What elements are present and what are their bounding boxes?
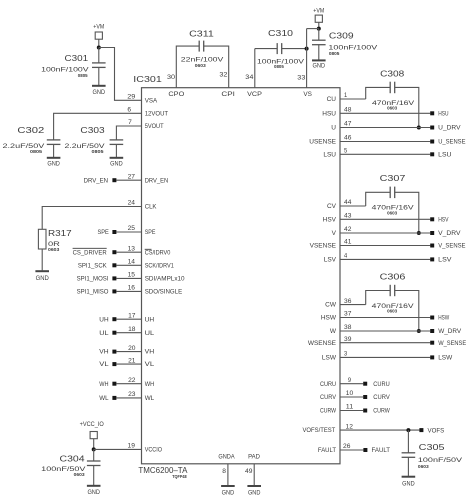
pin number 48 (344, 108, 352, 114)
wire pin 7 5VOUT to C303 (116, 126, 141, 140)
wire C301 to GND (98, 67, 100, 85)
net label CURW (373, 408, 390, 415)
svg-text:SDO/SINGLE: SDO/SINGLE (145, 289, 183, 296)
svg-text:13: 13 (128, 246, 136, 252)
IC301 value TMC6200-TA (138, 465, 187, 475)
junction C307/V_DRV (417, 231, 421, 235)
pin number 27 (128, 174, 136, 180)
wire pin 8 GNDA to GND (227, 464, 229, 485)
C307 refdes (380, 173, 406, 183)
wire C305 top (407, 430, 409, 453)
capacitor C301 (92, 63, 106, 68)
svg-text:GND: GND (222, 491, 235, 497)
svg-text:VSENSE: VSENSE (310, 243, 337, 250)
svg-text:36: 36 (344, 299, 352, 305)
wire C309 to GND (318, 45, 320, 60)
svg-text:C303: C303 (80, 125, 105, 135)
svg-text:GND: GND (313, 64, 326, 70)
svg-text:23: 23 (128, 392, 136, 398)
pin name VL (145, 361, 155, 368)
net square W_SENSE (430, 341, 434, 345)
net square U_DRV (430, 126, 434, 130)
pin number 23 (128, 392, 136, 398)
net square HSU (430, 111, 434, 115)
ground GNDA (221, 486, 235, 497)
net label U_DRV (438, 125, 461, 132)
svg-text:SDI/AMPLx10: SDI/AMPLx10 (145, 276, 185, 283)
pin number 12 (346, 424, 354, 430)
svg-text:UH: UH (99, 316, 109, 323)
svg-text:GND: GND (36, 276, 50, 282)
svg-text:VH: VH (99, 349, 109, 356)
wire pin 12 VOFS/TEST (340, 429, 420, 431)
wire pin 5 LSU (340, 153, 430, 155)
wire pin 26 FAULT (340, 449, 364, 451)
svg-text:W: W (330, 328, 337, 335)
svg-text:34: 34 (245, 75, 254, 81)
svg-text:39: 39 (344, 337, 352, 343)
svg-text:12: 12 (346, 424, 354, 430)
pin name HSV (323, 216, 337, 223)
wire CS_DRIVER to pin 13 (116, 251, 141, 253)
svg-text:WL: WL (145, 395, 155, 402)
svg-text:DRV_EN: DRV_EN (84, 177, 109, 184)
svg-text:0603: 0603 (74, 472, 86, 477)
svg-text:WL: WL (99, 395, 109, 402)
svg-text:TQFP48: TQFP48 (172, 474, 187, 479)
capacitor C310 (277, 43, 282, 54)
IC301 package TQFP48 (172, 474, 187, 479)
net label SPI1_MOSI (77, 276, 109, 283)
pin number 20 (128, 346, 136, 352)
svg-text:CW: CW (325, 302, 337, 309)
pin name 5VOUT (145, 123, 164, 130)
svg-text:0603: 0603 (387, 105, 398, 110)
net label WL (99, 395, 109, 402)
power +VCC_IO label (80, 422, 105, 428)
C303 refdes (80, 125, 105, 135)
svg-text:15: 15 (128, 273, 136, 279)
wire +VM to C301 (98, 48, 100, 63)
net square VH (112, 350, 116, 354)
wire UH to pin 17 (116, 318, 141, 320)
wire pin 3 LSW (340, 356, 430, 358)
svg-text:SPI1_SCK: SPI1_SCK (78, 262, 107, 269)
wire pin 10 CURV (340, 396, 363, 398)
net square VL (112, 362, 116, 366)
wire C303 to GND (115, 144, 117, 157)
svg-text:CURV: CURV (320, 394, 337, 401)
svg-text:17: 17 (128, 313, 136, 319)
C307 value (372, 205, 415, 212)
svg-text:0805: 0805 (274, 64, 284, 69)
pin name CS/IDRV0 overline (145, 248, 152, 250)
C305 refdes (419, 442, 445, 452)
svg-text:HSW: HSW (321, 315, 337, 322)
pin number 14 (128, 260, 136, 266)
svg-text:33: 33 (297, 75, 306, 81)
svg-text:R317: R317 (48, 228, 72, 238)
net square LSV (430, 257, 434, 261)
svg-text:VCP: VCP (247, 91, 262, 98)
wire C302 to GND (53, 144, 55, 157)
net square W_DRV (430, 329, 434, 333)
capacitor C308 (390, 82, 395, 94)
wire C308 right riser (395, 87, 419, 127)
junction +VM/C309 (317, 27, 321, 31)
svg-text:V: V (332, 230, 337, 237)
wire pin 9 CURU (340, 383, 363, 385)
svg-text:22: 22 (128, 378, 136, 384)
pin number 9 (348, 378, 352, 384)
svg-text:LSU: LSU (323, 151, 336, 158)
pin number 49 (245, 469, 253, 475)
C306 package 0603 (387, 309, 398, 314)
net label W_DRV (438, 328, 462, 335)
net square WL (112, 396, 116, 400)
svg-text:CS/IDRV0: CS/IDRV0 (145, 249, 171, 256)
svg-text:VL: VL (145, 361, 155, 368)
pin number 26 (343, 444, 351, 450)
net square CURW (363, 409, 367, 413)
IC301 refdes (133, 74, 162, 84)
pin name SPE (145, 229, 156, 236)
net label HSU (438, 111, 449, 118)
svg-text:47: 47 (344, 122, 352, 128)
svg-text:LSU: LSU (438, 152, 452, 159)
svg-text:SPI1_MISO: SPI1_MISO (77, 289, 109, 296)
svg-text:11: 11 (346, 405, 354, 411)
svg-text:0805: 0805 (92, 149, 105, 154)
svg-text:C305: C305 (419, 442, 445, 452)
net label CURV (373, 394, 390, 401)
wire pin 43 HSV (340, 218, 430, 220)
svg-text:CLK: CLK (145, 204, 157, 211)
svg-text:CURW: CURW (373, 408, 390, 415)
net square UH (112, 317, 116, 321)
net square HSV (430, 217, 434, 221)
ground C303 (110, 158, 124, 168)
svg-text:DRV_EN: DRV_EN (145, 177, 169, 184)
svg-text:CURU: CURU (320, 381, 336, 388)
svg-text:VOFS: VOFS (428, 427, 445, 434)
capacitor C302 (47, 140, 61, 145)
svg-text:C308: C308 (380, 69, 405, 79)
pin name W (330, 328, 337, 335)
pin number 17 (128, 313, 136, 319)
pin name VCP (247, 91, 262, 98)
power +VM right label (313, 8, 324, 14)
wire pin 39 WSENSE (340, 342, 430, 344)
svg-text:PAD: PAD (248, 453, 260, 460)
junction C310/VS (305, 47, 309, 51)
pin name SDO/SINGLE (145, 289, 183, 296)
R317 package 0603 (48, 247, 60, 252)
svg-text:0603: 0603 (387, 210, 398, 215)
net label HSW (438, 315, 450, 322)
svg-text:25: 25 (128, 226, 136, 232)
pin name HSW (321, 315, 337, 322)
svg-text:U_SENSE: U_SENSE (438, 139, 466, 146)
svg-text:FAULT: FAULT (318, 447, 336, 454)
pin number 36 (344, 299, 352, 305)
svg-text:27: 27 (128, 174, 136, 180)
pin name CURU (320, 381, 336, 388)
C308 value (372, 100, 415, 107)
net square CURV (363, 395, 367, 399)
svg-text:HSU: HSU (438, 111, 449, 118)
ground C301 (92, 86, 106, 96)
svg-text:FAULT: FAULT (372, 447, 391, 454)
wire SPI1_MISO to pin 16 (116, 290, 141, 292)
C310 value (257, 59, 305, 66)
svg-text:0603: 0603 (48, 247, 60, 252)
capacitor C307 (390, 187, 395, 199)
pin name LSW (322, 355, 337, 362)
capacitor C311 (199, 41, 204, 52)
wire SPI1_SCK to pin 14 (116, 264, 141, 266)
svg-text:46: 46 (344, 136, 352, 142)
svg-text:CURW: CURW (320, 408, 337, 415)
wire C310 left (255, 48, 277, 50)
svg-text:USENSE: USENSE (309, 139, 336, 146)
svg-text:GND: GND (47, 162, 60, 168)
net label V_DRV (438, 230, 461, 237)
C307 package 0603 (387, 210, 398, 215)
pin number 33 (297, 75, 306, 81)
svg-text:LSW: LSW (438, 355, 453, 362)
net label W_SENSE (438, 340, 467, 347)
pin name 12VOUT (145, 110, 168, 117)
pin number 41 (344, 240, 352, 246)
svg-text:W_DRV: W_DRV (438, 328, 462, 335)
svg-text:10: 10 (346, 391, 354, 397)
net square WH (112, 382, 116, 386)
wire pin 49 PAD to GND (253, 464, 255, 485)
wire C308 left riser (366, 87, 391, 99)
pin number 22 (128, 378, 136, 384)
svg-text:HSV: HSV (323, 216, 337, 223)
pin name CW (325, 302, 337, 309)
net label WH (99, 381, 109, 388)
wire VH to pin 20 (116, 351, 141, 353)
C304 package 0603 (74, 472, 86, 477)
C303 package 0805 (92, 149, 105, 154)
ground R317 (35, 271, 49, 282)
net label LSU (438, 152, 452, 159)
wire SPE to pin 25 (116, 231, 141, 233)
svg-text:HSW: HSW (438, 315, 450, 322)
pin number 7 (128, 120, 132, 126)
svg-text:GNDA: GNDA (218, 453, 235, 460)
pin number 30 (167, 75, 176, 81)
wire pin 47 U (340, 127, 430, 129)
svg-text:5VOUT: 5VOUT (145, 123, 164, 130)
pin number 15 (128, 273, 136, 279)
pin name VSENSE (310, 243, 337, 250)
pin number 13 (128, 246, 136, 252)
svg-text:IC301: IC301 (133, 74, 162, 84)
net square CS_DRIVER (112, 250, 116, 254)
svg-text:C306: C306 (380, 271, 406, 281)
pin number 32 (219, 73, 228, 79)
pin name VOFS/TEST (303, 427, 336, 434)
C308 package 0603 (387, 105, 398, 110)
svg-text:GND: GND (93, 90, 106, 96)
wire C304 to GND (93, 466, 95, 486)
svg-text:37: 37 (344, 312, 352, 318)
wire VL to pin 21 (116, 363, 141, 365)
pin name VH (145, 349, 155, 356)
net label V_SENSE (438, 243, 466, 250)
svg-text:W_SENSE: W_SENSE (438, 340, 467, 347)
pin name PAD (248, 453, 260, 460)
pin number 39 (344, 337, 352, 343)
pin name WSENSE (308, 340, 337, 347)
wire +VM right stub (318, 22, 320, 28)
svg-text:20: 20 (128, 346, 136, 352)
C306 refdes (380, 271, 406, 281)
junction C308/U_DRV (417, 126, 421, 130)
svg-text:41: 41 (344, 240, 352, 246)
svg-text:HSU: HSU (322, 110, 336, 117)
pin name DRV_EN (145, 177, 169, 184)
svg-text:C307: C307 (380, 173, 406, 183)
svg-text:0603: 0603 (387, 309, 398, 314)
svg-text:CS_DRIVER: CS_DRIVER (73, 249, 107, 256)
svg-text:VL: VL (99, 361, 109, 368)
resistor R317 (38, 229, 46, 249)
C308 refdes (380, 69, 405, 79)
net square VOFS (419, 428, 423, 432)
pin name VS (303, 91, 312, 98)
svg-text:48: 48 (344, 108, 352, 114)
ground C309 (312, 60, 326, 69)
svg-text:C311: C311 (189, 29, 214, 39)
svg-text:GND: GND (87, 490, 100, 496)
net label SPI1_MISO (77, 289, 109, 296)
svg-text:U_DRV: U_DRV (438, 125, 461, 132)
junction C306/W_DRV (417, 329, 421, 333)
net square HSW (430, 316, 434, 320)
net square U_SENSE (430, 140, 434, 144)
svg-text:0805: 0805 (30, 149, 43, 154)
C304 value (41, 466, 86, 473)
net label LSW (438, 355, 453, 362)
svg-text:32: 32 (219, 73, 228, 79)
pin number 5 (344, 149, 348, 155)
net square SPI1_MOSI (112, 276, 116, 280)
pin number 18 (128, 327, 136, 333)
wire pin 6 12VOUT to C302 (54, 113, 142, 140)
svg-text:V_SENSE: V_SENSE (438, 243, 466, 250)
pin name LSV (324, 257, 337, 264)
pin name WL (145, 395, 155, 402)
power +VM left label (93, 25, 104, 31)
pin name HSU (322, 110, 336, 117)
pin number 19 (128, 444, 136, 450)
pin number 43 (344, 214, 352, 220)
pin number 16 (128, 286, 136, 292)
svg-text:U: U (331, 125, 336, 132)
net square SPI1_MISO (112, 289, 116, 293)
svg-text:C310: C310 (268, 28, 293, 38)
svg-text:CURV: CURV (373, 394, 390, 401)
wire C311 loop (176, 46, 228, 88)
svg-text:C309: C309 (329, 31, 354, 41)
svg-text:+VM: +VM (93, 25, 104, 31)
pin number 38 (344, 325, 352, 331)
wire C306 right riser (395, 291, 419, 332)
wire C310 right (282, 48, 307, 50)
svg-text:SPI1_MOSI: SPI1_MOSI (77, 276, 109, 283)
pin number 11 (346, 405, 354, 411)
pin name CS/IDRV0 (145, 249, 171, 256)
wire pin 41 VSENSE (340, 245, 430, 247)
pin name CLK (145, 204, 157, 211)
net label SPE (98, 229, 110, 236)
C311 refdes (189, 29, 214, 39)
wire WL to pin 23 (116, 397, 141, 399)
svg-text:CURU: CURU (373, 381, 390, 388)
C302 refdes (17, 125, 44, 135)
C301 value (41, 67, 89, 74)
C309 refdes (329, 31, 354, 41)
wire pin 37 HSW (340, 317, 430, 319)
pin name CV (327, 203, 337, 210)
junction VOFS/C305 (406, 428, 410, 432)
power +VCC_IO symbol (90, 432, 97, 439)
svg-text:49: 49 (245, 469, 253, 475)
wire pin 48 HSU (340, 112, 430, 114)
R317 refdes (48, 228, 72, 238)
svg-text:VCCIO: VCCIO (145, 446, 162, 453)
C302 package 0805 (30, 149, 43, 154)
pin number 4 (344, 254, 348, 260)
net square DRV_EN (112, 178, 116, 182)
capacitor C309 (312, 40, 326, 45)
svg-text:+VCC_IO: +VCC_IO (80, 422, 105, 428)
wire pin 1 CU (340, 98, 366, 100)
pin number 3 (344, 352, 348, 358)
wire C305 to GND (407, 457, 409, 476)
pin number 47 (344, 122, 352, 128)
net square SPE (112, 230, 116, 234)
pin name LSU (323, 151, 336, 158)
wire UL to pin 18 (116, 332, 141, 334)
svg-text:+VM: +VM (313, 8, 324, 14)
C310 package 0805 (274, 64, 284, 69)
pin number 29 (127, 95, 136, 101)
pin name CPO (168, 91, 184, 98)
net square V_DRV (430, 231, 434, 235)
C309 package 0805 (329, 51, 340, 56)
svg-text:C301: C301 (65, 53, 89, 63)
svg-text:CU: CU (327, 96, 337, 103)
net label UH (99, 316, 109, 323)
net square UL (112, 331, 116, 335)
pin name UL (145, 330, 155, 337)
net label FAULT (372, 447, 391, 454)
capacitor C306 (390, 285, 395, 296)
net label CS_DRIVER (73, 249, 107, 256)
svg-text:30: 30 (167, 75, 176, 81)
svg-text:12VOUT: 12VOUT (145, 110, 168, 117)
svg-text:LSW: LSW (322, 355, 337, 362)
net square FAULT (363, 448, 367, 452)
svg-text:GND: GND (402, 482, 415, 488)
svg-text:0805: 0805 (329, 51, 340, 56)
